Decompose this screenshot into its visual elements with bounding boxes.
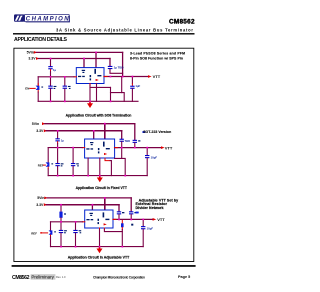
wire U3 left pin line <box>51 221 83 223</box>
svg-text:Divider Network: Divider Network <box>136 206 164 210</box>
node gnd x61 <box>60 246 62 248</box>
red stub U3 bottom pin2 <box>103 228 105 229</box>
node gnd x110.5 <box>110 101 112 103</box>
node line x57.6 <box>57 147 59 149</box>
gnd rail <box>51 246 144 248</box>
svg-text:3A Sink & Source Adjustable Li: 3A Sink & Source Adjustable Linear Bus T… <box>56 27 193 32</box>
node line x73.1 <box>72 147 74 149</box>
red stub U3 right pin <box>113 218 116 220</box>
red stub U1 bottom pin <box>89 84 91 86</box>
wire Cf to gnd rail <box>60 233 62 246</box>
op IC U3 box <box>85 210 113 228</box>
U3 pin mark bottom-left <box>86 219 93 220</box>
node gnd x99.5 <box>99 246 101 248</box>
svg-text:1µF: 1µF <box>135 84 140 88</box>
wire U2 bottom pin1 <box>87 158 89 176</box>
node gnd x57.6 <box>57 175 59 177</box>
ground stub <box>99 176 101 178</box>
wire rail1 corner to capacitor C8 <box>134 124 136 140</box>
wire rail1 <box>37 51 123 53</box>
capacitor C10 <box>117 211 121 214</box>
red stub U3 top pin <box>104 210 106 213</box>
wire Cg to gnd rail <box>75 233 77 246</box>
wire U2 bottom pin2 <box>99 158 101 176</box>
red stub below C5 <box>37 90 39 92</box>
logo icon box <box>14 14 25 21</box>
wire C5 to gnd rail <box>37 92 39 101</box>
footer preliminary highlight <box>31 274 56 279</box>
node line x61 <box>60 221 62 223</box>
red stub below R2 <box>121 227 123 229</box>
U1 pin mark bottom-mid <box>90 75 92 80</box>
ground symbol <box>97 178 103 183</box>
wire branch Ca <box>50 77 52 86</box>
svg-text:APPLICATION DETAILS: APPLICATION DETAILS <box>14 37 68 43</box>
input node REF <box>40 232 42 234</box>
svg-text:10µF: 10µF <box>151 155 158 159</box>
node gnd x125.2 <box>124 175 126 177</box>
wire rail1 corner down <box>122 52 124 76</box>
svg-text:3-Lead PbSO8 Series and PFM: 3-Lead PbSO8 Series and PFM <box>130 52 185 56</box>
capacitor Cout1 <box>130 86 134 89</box>
red stub below C9 <box>47 167 49 169</box>
wire U1 bottom pin2 <box>96 84 98 102</box>
wire rail2 <box>46 204 119 206</box>
svg-text:1µ: 1µ <box>53 68 56 72</box>
U3 pin mark top-left <box>90 213 93 216</box>
capacitor Cg <box>73 230 77 233</box>
wire branch REF down <box>47 148 49 163</box>
wire branch Ce <box>72 148 74 163</box>
svg-text:VTT: VTT <box>153 74 161 79</box>
resistor R2 <box>121 223 124 227</box>
U2 pin mark bottom-mid <box>98 148 100 153</box>
wire rail1 <box>47 197 131 199</box>
output arrow VTT <box>148 75 152 78</box>
node gnd x64.8 <box>64 101 66 103</box>
resistor R2 mark <box>131 224 133 226</box>
wire Cout1 to gnd <box>131 89 133 101</box>
wire rail1 to U1 top pin <box>95 52 97 67</box>
svg-text:Application Circuit in Fixed V: Application Circuit in Fixed VTT <box>76 186 128 190</box>
svg-text:Page 5: Page 5 <box>178 275 190 279</box>
svg-text:TBD: TBD <box>125 139 131 143</box>
resistor R1 mark <box>64 213 66 214</box>
input arrow 3.3Vin <box>36 57 39 60</box>
wire R1 to ref line <box>60 218 62 222</box>
svg-text:VTT: VTT <box>165 145 173 150</box>
wire rail1 to U3 top pin <box>104 198 106 210</box>
capacitor C2 <box>48 66 52 69</box>
outer frame of application details figure <box>14 48 194 261</box>
gnd rail <box>38 100 138 102</box>
wire branch Cg <box>75 222 77 230</box>
wire Cout3 to gnd <box>142 229 144 246</box>
node gnd x75.5 <box>75 246 77 248</box>
wire jog drop <box>122 93 125 102</box>
vtt output line <box>115 147 161 149</box>
node gnd x122.3 <box>122 246 124 248</box>
U1 pin mark top-left <box>82 70 85 73</box>
U3 pin mark top-right <box>103 212 105 217</box>
node line x75.5 <box>75 221 77 223</box>
wire rail2 to resistor R1 <box>60 205 62 212</box>
wire rail2 corner to capacitor C7 <box>121 131 123 139</box>
wire C8 to vtt line <box>134 143 136 148</box>
red stub U2 top pin <box>104 139 106 142</box>
red stub U3 bottom pin1 <box>99 228 101 230</box>
svg-text:Champion Microelectronic Corpo: Champion Microelectronic Corporation <box>93 275 145 279</box>
capacitor Cout3 <box>141 226 145 229</box>
svg-text:10µF: 10µF <box>147 226 154 230</box>
svg-text:Application Circuit in Adjusta: Application Circuit in Adjustable VTT <box>68 255 130 259</box>
svg-text:Application Circuit with SO8 T: Application Circuit with SO8 Termination <box>66 114 132 118</box>
node line x64.8 <box>64 76 66 78</box>
wire sense loop <box>115 148 126 176</box>
wire rail2 corner to capacitor C10 <box>118 205 120 212</box>
svg-text:CM8562: CM8562 <box>12 275 30 281</box>
capacitor C8 mark <box>138 140 140 141</box>
wire rail2 to U2 top pin <box>93 131 95 139</box>
capacitor C11 mark <box>134 212 137 213</box>
wire jog to gnd rail <box>110 87 112 101</box>
wire C7 to vtt line <box>121 142 123 148</box>
resistor R1 <box>59 212 62 218</box>
wire C11 to vtt line <box>130 215 132 220</box>
wire sense jog <box>111 77 122 93</box>
vtt output line <box>104 76 148 78</box>
header rule <box>13 33 195 34</box>
wire U1 bottom jog right <box>90 86 111 88</box>
wire vtt cap branch <box>131 77 133 84</box>
U1 pin mark top-right <box>94 69 96 74</box>
wire rail2 <box>46 130 121 132</box>
wire rail2 to U1 top pin <box>83 59 85 68</box>
red stub U2 left pin <box>82 147 84 149</box>
capacitor Cg mark <box>79 230 82 233</box>
U2 internal pin arrow <box>104 153 107 155</box>
input arrow 5Vin <box>34 51 37 54</box>
svg-text:1µ TBD: 1µ TBD <box>114 66 124 70</box>
wire vtt cap branch <box>142 219 144 226</box>
capacitor Ca <box>48 86 52 89</box>
U2 pin mark top-right <box>103 142 105 147</box>
node vtt x119 <box>118 219 120 221</box>
vtt output line <box>113 218 153 220</box>
capacitor C5 on EN branch <box>36 86 40 90</box>
svg-text:VTT: VTT <box>157 217 165 222</box>
node vtt x132.4 <box>132 76 134 78</box>
annotation mark <box>136 212 139 214</box>
wire branch Cf <box>60 222 62 230</box>
capacitor Ca mark <box>54 86 57 89</box>
capacitor Ce <box>71 163 75 166</box>
capacitor Cb mark <box>68 86 71 89</box>
capacitor Ce mark <box>76 163 79 166</box>
wire branch REF down <box>50 222 52 231</box>
wire rail1 <box>45 123 135 125</box>
logo wordmark CHAMPION <box>25 15 70 23</box>
U2 pin mark bottom-right <box>106 148 110 149</box>
capacitor C9 on REF branch <box>46 162 50 166</box>
capacitor C10 mark <box>122 212 124 213</box>
capacitor Cf <box>59 230 63 233</box>
node gnd x50.5 <box>50 101 52 103</box>
svg-text:3.3V: 3.3V <box>28 57 36 61</box>
node vtt x122.6 <box>122 76 124 78</box>
U1 pin mark bottom-right <box>97 75 101 76</box>
red stub below C12 <box>50 235 52 237</box>
input arrow 5Vin <box>44 197 47 200</box>
gnd rail <box>48 175 147 177</box>
node line x50.5 <box>50 76 52 78</box>
output arrow VTT <box>153 218 157 221</box>
node rail2 x61 <box>60 204 62 206</box>
wire Ca to gnd rail <box>50 89 52 101</box>
wire rail2 corner to capacitor C1 <box>109 59 111 66</box>
wire branch Cd <box>57 148 59 163</box>
ground symbol <box>87 103 93 108</box>
capacitor C1 <box>108 66 113 69</box>
node gnd x90 <box>89 101 91 103</box>
node rail1 x104.8 <box>104 197 106 199</box>
node gnd x99.8 <box>99 175 101 177</box>
op IC U2 box <box>85 139 115 158</box>
wire vtt cap branch <box>146 148 148 155</box>
footer rule <box>12 265 196 267</box>
wire rail2 to capacitor C6 <box>57 131 59 138</box>
U1 pin mark bottom-left <box>78 76 85 77</box>
red stub above Cout1 <box>131 84 133 86</box>
capacitor C6 <box>55 138 59 141</box>
svg-text:REF: REF <box>31 231 37 235</box>
red stub U1 right pin <box>104 76 107 78</box>
svg-text:5Vin: 5Vin <box>27 51 34 55</box>
wire C1 to jog <box>110 69 123 73</box>
wire C9 to gnd rail <box>47 169 49 176</box>
node vtt x121.7 <box>121 147 123 149</box>
svg-text:1µ: 1µ <box>61 139 64 143</box>
U1 internal pin arrow <box>96 79 99 81</box>
node gnd x88.1 <box>87 175 89 177</box>
svg-text:SOT-223 Version: SOT-223 Version <box>143 130 171 134</box>
wire branch EN down <box>37 77 39 86</box>
C9 mark <box>51 163 53 164</box>
red stub above C5 <box>37 84 39 86</box>
red stub under C6 <box>57 142 59 144</box>
wire C12 to gnd rail <box>50 237 52 247</box>
wire Cb to gnd rail <box>64 89 66 101</box>
wire rail2 to U3 top pin <box>91 205 93 210</box>
wire Cd to gnd rail <box>57 166 59 175</box>
wire corner to gnd rail <box>110 161 111 176</box>
svg-text:EN: EN <box>25 86 29 90</box>
svg-text:CM8562: CM8562 <box>169 18 195 25</box>
svg-text:3.3V: 3.3V <box>36 203 44 207</box>
svg-text:5Vin: 5Vin <box>32 122 39 126</box>
ground stub <box>99 247 101 249</box>
input arrow 3.3Vin <box>44 129 47 132</box>
op IC U1 box <box>76 68 104 84</box>
capacitor Cf mark <box>64 230 67 233</box>
wire U2 left pin line <box>48 147 82 149</box>
input wire REF red <box>44 164 46 166</box>
node rail2 x92.4 <box>92 204 94 206</box>
wire rail1 to U2 top pin <box>104 124 106 139</box>
node rail2 x57.6 <box>57 130 59 132</box>
wire C2 to ref line <box>50 71 52 76</box>
wire U3 bottom pin2 jog <box>104 229 122 231</box>
node rail2 x93.7 <box>93 130 95 132</box>
node vtt x147.2 <box>146 147 148 149</box>
wire U1 bottom pin down <box>89 85 91 101</box>
svg-text:Rev. 1.0: Rev. 1.0 <box>56 275 66 279</box>
capacitor C8 <box>133 140 137 143</box>
input wire REF red <box>42 232 48 234</box>
red stub above R2 <box>121 220 123 223</box>
red corner U2 bottom <box>105 158 110 160</box>
capacitor C12 on REF branch <box>49 230 53 234</box>
svg-text:8-Pin SO8 Function w/ SPS Pin: 8-Pin SO8 Function w/ SPS Pin <box>130 56 183 60</box>
red stub U3 left pin <box>82 221 84 223</box>
node vtt x131.2 <box>130 219 132 221</box>
node C1 junction <box>110 76 112 78</box>
wire U3 bottom pin1 <box>99 230 101 247</box>
capacitor Cd mark <box>61 163 64 166</box>
wire Cout2 to gnd <box>146 158 148 175</box>
U3 pin mark bottom-right <box>105 219 109 220</box>
U2 pin mark top-left <box>90 142 93 145</box>
capacitor C8 value mark <box>142 131 145 133</box>
capacitor Cd <box>55 163 59 166</box>
U3 pin mark bottom-mid <box>98 219 100 224</box>
wire branch Cb <box>64 77 66 86</box>
capacitor Cb <box>63 86 67 89</box>
capacitor C7 <box>120 139 124 142</box>
wire C10 to vtt line <box>118 215 120 220</box>
wire U1 left pin line <box>38 76 74 78</box>
C5 mark <box>41 87 43 88</box>
input arrow 5Vin <box>42 122 45 125</box>
U2 pin mark bottom-left <box>86 148 93 149</box>
node rail1 x96 <box>95 52 97 54</box>
wire rail2 <box>39 58 110 60</box>
wire rail2 to capacitor C2 <box>50 59 52 67</box>
wire C6 to ref line <box>57 143 59 147</box>
svg-text:5Vin: 5Vin <box>37 196 44 200</box>
node vtt x134.8 <box>134 147 136 149</box>
node rail2 x84 <box>83 58 85 60</box>
ground symbol <box>97 249 103 254</box>
C12 mark <box>54 231 56 232</box>
red stub U1 left pin <box>74 76 76 78</box>
input arrow 3.3Vin <box>44 203 47 206</box>
svg-text:REF: REF <box>38 163 44 167</box>
ground stub <box>89 102 91 104</box>
red stub under C2 <box>50 69 52 71</box>
input wire EN red <box>30 87 35 89</box>
red stub U2 right pin <box>115 147 118 149</box>
wire R2 to gnd rail <box>121 230 123 247</box>
node rail2 x50.5 <box>50 58 52 60</box>
svg-text:Preliminary: Preliminary <box>31 275 54 280</box>
capacitor C11 <box>129 211 133 214</box>
wire Ce to gnd rail <box>72 166 74 175</box>
wire rail1 corner to capacitor C11 <box>130 198 132 211</box>
node gnd x73.1 <box>72 175 74 177</box>
capacitor Cout2 <box>145 155 149 158</box>
node rail1 x104.8 <box>104 123 106 125</box>
node vtt x143.2 <box>142 219 144 221</box>
output arrow VTT <box>161 146 165 149</box>
U3 internal pin arrow <box>104 223 107 225</box>
svg-text:3.3V: 3.3V <box>36 129 44 133</box>
